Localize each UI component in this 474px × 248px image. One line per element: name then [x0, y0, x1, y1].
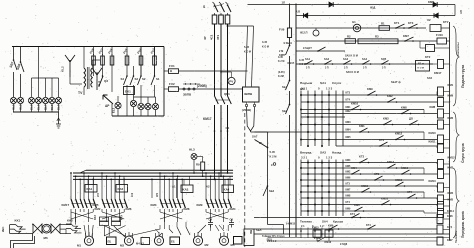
svg-text:KT4: KT4	[366, 224, 371, 227]
svg-text:KM8: KM8	[401, 106, 407, 110]
svg-text:КМ4: КМ4	[346, 129, 352, 132]
relay box KA4	[222, 185, 234, 193]
svg-text:Подъем груза: Подъем груза	[461, 65, 465, 88]
svg-text:1Л: 1Л	[282, 1, 286, 5]
svg-text:КМ3: КМ3	[346, 121, 352, 124]
contact KT3	[408, 27, 410, 29]
svg-text:KM9: KM9	[197, 203, 203, 207]
lamp HL1	[10, 97, 16, 103]
diode V4	[434, 13, 438, 18]
svg-text:KM16: KM16	[401, 166, 409, 170]
relay coil KT1	[430, 25, 441, 32]
svg-text:Ф5Д: Ф5Д	[370, 7, 376, 10]
wire - merge to control drop	[247, 107, 251, 132]
contact KM5	[354, 210, 356, 212]
svg-text:KM6: KM6	[447, 214, 453, 218]
wire - rung	[301, 116, 345, 118]
relay coil KM13	[438, 183, 444, 192]
svg-text:KM13: KM13	[429, 179, 437, 183]
relay box KA1	[85, 185, 97, 193]
svg-text:КМ2: КМ2	[346, 171, 351, 174]
lamp EL2	[115, 102, 121, 108]
wire - jog	[423, 211, 425, 213]
svg-text:K O M: K O M	[262, 46, 269, 49]
svg-text:KM2: KM2	[448, 116, 454, 120]
relay coil KM16	[325, 230, 333, 237]
svg-text:EK1: EK1	[125, 90, 131, 94]
relay coil KM3	[438, 170, 444, 179]
contact KM8	[401, 113, 403, 115]
svg-text:KM3: KM3	[383, 117, 389, 121]
wire - fuse panel verticals	[93, 47, 95, 56]
contact KM4	[351, 173, 353, 175]
arrester symbol	[56, 124, 61, 128]
contactor KM2 contacts	[83, 180, 85, 199]
svg-text:Вперед: Вперед	[300, 151, 311, 155]
brace - hoist group	[453, 26, 459, 106]
wire - motor feeds	[86, 232, 93, 238]
wire - left panel bottom bus	[13, 111, 59, 113]
svg-text:9 SЦ1Т: 9 SЦ1Т	[303, 46, 312, 50]
svg-text:2 1: 2 1	[301, 224, 305, 228]
svg-text:Назад: Назад	[332, 151, 341, 155]
relay coil KT4	[437, 225, 443, 234]
contact KM15	[361, 191, 363, 193]
device 3BПB box	[243, 87, 260, 102]
wire	[179, 88, 243, 90]
wire - rung	[301, 167, 424, 169]
svg-text:KM12: KM12	[448, 156, 456, 160]
svg-text:riЛ: riЛ	[459, 10, 463, 14]
svg-text:KM14: KM14	[447, 209, 454, 213]
svg-text:KM6: KM6	[126, 207, 132, 211]
svg-text:KM10: KM10	[429, 131, 437, 135]
relay coil KM5	[438, 202, 444, 211]
contact KT4b	[351, 217, 353, 219]
svg-text:KT4: KT4	[350, 212, 355, 216]
svg-text:KM1: KM1	[448, 83, 454, 87]
cam table dots	[300, 94, 302, 96]
contact KM16	[401, 173, 403, 175]
wire	[31, 78, 33, 97]
svg-text:SБ2: SБ2	[269, 189, 275, 193]
relay coil KM7b	[437, 237, 443, 245]
wire - motor feed verticals A1	[84, 225, 93, 236]
svg-text:1 2 3: 1 2 3	[326, 87, 333, 91]
svg-text:KM10: KM10	[351, 102, 359, 106]
svg-text:Ф12.П: Ф12.П	[300, 32, 308, 35]
svg-text:5.45: 5.45	[244, 45, 250, 49]
svg-text:КЛ1: КЛ1	[300, 88, 305, 91]
wire - sub bus for lamp group	[32, 77, 59, 79]
svg-text:КМ8: КМ8	[346, 195, 351, 198]
svg-text:KM8: KM8	[184, 207, 190, 211]
contactor KM5 contacts	[101, 180, 103, 199]
svg-text:Подъем: Подъем	[300, 81, 313, 85]
wire - secondary leads	[91, 60, 93, 68]
fuse FU on phase C	[225, 15, 230, 24]
terminals (200B)	[183, 88, 185, 90]
contact KM1	[359, 131, 361, 133]
wire	[38, 78, 40, 97]
contact KM10	[351, 109, 353, 111]
svg-text:KMП: KMП	[279, 53, 285, 57]
svg-text:3.45: 3.45	[299, 58, 305, 62]
svg-text:4С2: 4С2	[131, 192, 134, 197]
svg-text:KM11: KM11	[429, 140, 437, 144]
contact SB10	[317, 50, 319, 52]
svg-text:KM15: KM15	[361, 184, 369, 188]
svg-text:КМ9: КМ9	[346, 208, 351, 211]
wire - rung	[301, 204, 437, 206]
wire - junction dots on drops	[214, 130, 216, 132]
svg-text:KM17: KM17	[203, 117, 212, 121]
svg-text:KTУ: KTУ	[443, 20, 449, 24]
svg-text:U2: U2	[297, 10, 301, 14]
wire - control rail 2	[295, 4, 297, 238]
cam controller SA1 columns	[300, 91, 302, 147]
svg-text:HL1: HL1	[12, 104, 16, 110]
wire - rung	[301, 94, 437, 96]
svg-text:(200B): (200B)	[197, 84, 207, 88]
svg-text:9 KM15: 9 KM15	[286, 222, 296, 226]
wire - 3-phase bus line 3	[73, 178, 233, 180]
contactor KM3 contacts	[159, 180, 161, 199]
svg-text:4T1: 4T1	[216, 35, 220, 40]
wire - drop to arrester	[58, 112, 60, 124]
fuse FU6	[111, 54, 113, 67]
contact KM14	[387, 167, 389, 169]
resistor R2	[345, 39, 356, 44]
arrester FV1 arrows	[65, 55, 75, 77]
svg-text:QF1: QF1	[224, 92, 230, 96]
svg-text:4C1: 4C1	[210, 34, 214, 40]
pushbutton SB4 on rail	[289, 104, 291, 106]
svg-text:4P: 4P	[203, 36, 207, 40]
wire - control drop to SB3	[251, 131, 268, 133]
thermal relay KK3 stack	[100, 217, 109, 221]
wire	[126, 85, 128, 116]
svg-text:SБ5: SБ5	[256, 228, 262, 232]
disconnect switch S - 3 pole	[213, 2, 215, 4]
diode V3	[304, 13, 308, 18]
svg-text:KM12: KM12	[395, 132, 403, 136]
lamp EL3	[138, 103, 144, 109]
brace - travel group	[453, 168, 459, 238]
svg-text:FU9: FU9	[279, 28, 285, 32]
wire - lamp return bus	[112, 115, 164, 117]
svg-text:Спуск груза: Спуск груза	[461, 143, 465, 163]
svg-text:KM9: KM9	[367, 87, 373, 91]
motor M1	[84, 236, 93, 245]
relay coil KM15	[313, 230, 321, 237]
fuse FU10	[437, 38, 447, 44]
lamp EL5	[152, 103, 158, 109]
wire - crossover to common	[102, 212, 124, 219]
cam controller SA4 columns	[300, 228, 302, 239]
box terminal cabinet	[244, 229, 254, 246]
svg-text:KM14: KM14	[387, 160, 395, 164]
wire - KM16 coil stub	[328, 237, 330, 241]
contact KT4	[407, 197, 409, 199]
relay coil KM11	[438, 144, 444, 153]
wire - rung y217.5	[254, 217, 437, 219]
wire - jog	[423, 192, 425, 198]
svg-text:SA4: SA4	[322, 220, 328, 224]
relay coil KM2	[438, 120, 444, 129]
emergency switch AB box	[416, 61, 430, 72]
cam table 2 dots	[307, 162, 309, 164]
svg-text:KM16: KM16	[325, 241, 332, 244]
svg-text:S2: S2	[142, 77, 146, 81]
wire - top rung 1	[248, 4, 456, 6]
svg-text:SA7: SA7	[252, 135, 258, 139]
svg-text:KA4: KA4	[224, 188, 230, 192]
relay coil KM8	[438, 109, 444, 118]
contact ДО	[409, 124, 411, 126]
svg-text:R2: R2	[347, 35, 351, 39]
wire - assembly to motor links	[104, 226, 126, 237]
limit switch SA2	[324, 63, 326, 65]
contact KT2	[379, 145, 381, 147]
svg-text:KM17: KM17	[434, 71, 442, 75]
relay coil KM9	[438, 98, 444, 107]
wire - motor feed verticals A2	[105, 226, 125, 237]
svg-text:SA5 K O M: SA5 K O M	[346, 71, 359, 74]
svg-text:5.45: 5.45	[270, 150, 276, 154]
transformer TV primary winding	[84, 68, 86, 87]
relay coil KM10	[438, 135, 444, 144]
svg-text:КМ4: КМ4	[346, 159, 351, 162]
svg-text:KM1: KM1	[359, 124, 365, 128]
switch S2	[140, 75, 142, 77]
svg-text:EL9: EL9	[37, 104, 41, 110]
wire - phase drops into bus	[214, 173, 216, 180]
svg-text:K 2 M: K 2 M	[270, 155, 277, 159]
svg-text:4Р2: 4Р2	[156, 192, 159, 197]
resistor R1	[379, 26, 390, 31]
svg-text:S1: S1	[156, 77, 160, 81]
bell HA1	[313, 30, 319, 36]
svg-text:3 П: 3 П	[325, 68, 329, 70]
brace - lower group	[453, 112, 459, 162]
wire - rung	[301, 173, 437, 175]
wire - 3-phase bus line 0	[86, 169, 233, 171]
wire - aux drop from bus to brake	[151, 179, 153, 198]
pushbutton SB8b	[317, 240, 319, 242]
contact KM9b	[329, 228, 331, 230]
transformer TV core	[86, 67, 88, 89]
svg-text:U2: U2	[427, 18, 431, 22]
motor M3	[124, 236, 133, 245]
relay coil KM14	[438, 209, 444, 218]
wire - rung	[336, 145, 437, 147]
aux box M4 brake	[141, 238, 150, 245]
relay coil KM17	[438, 60, 444, 69]
relay coil KM6	[437, 215, 443, 224]
motor M4	[154, 236, 163, 245]
svg-text:KM5: KM5	[448, 198, 454, 202]
svg-text:M6: M6	[44, 236, 48, 240]
contact KT2	[359, 162, 361, 164]
transformer TV secondary winding	[91, 68, 93, 87]
contact KM16	[381, 204, 383, 206]
contact KM9	[367, 94, 369, 96]
limit switch SA4	[362, 63, 364, 65]
switch S3	[133, 75, 135, 77]
svg-text:КМ7: КМ7	[346, 189, 351, 192]
fuse FU on phase B	[219, 15, 224, 24]
wire - rung	[301, 197, 437, 199]
contactor KM9 contacts	[205, 180, 207, 199]
svg-text:KT1: KT1	[394, 21, 400, 25]
wire - right return rail	[449, 22, 451, 241]
contactor KM6 contacts	[114, 180, 116, 199]
svg-text:3 2 1: 3 2 1	[301, 156, 308, 160]
wire - left panel top bus	[12, 46, 164, 48]
fuse FU1	[164, 70, 169, 72]
relay box KA2	[116, 185, 128, 193]
motor M6 coupling right	[51, 224, 60, 233]
switch Q3	[99, 76, 103, 86]
svg-text:KM3: KM3	[151, 203, 157, 207]
wire - rung	[301, 139, 437, 141]
relay coil KM12	[438, 160, 444, 169]
svg-text:HL2: HL2	[19, 104, 23, 110]
svg-text:KM4: KM4	[351, 166, 357, 170]
svg-text:A1: A1	[172, 185, 176, 189]
wire - rung	[301, 101, 437, 103]
aux contact pair near EB	[177, 227, 190, 235]
svg-text:SA1: SA1	[305, 57, 311, 61]
svg-text:КМ2: КМ2	[346, 110, 352, 113]
svg-text:KL2: KL2	[61, 66, 65, 72]
wire - crossover to common	[160, 212, 182, 219]
svg-text:Передвиж. крана: Передвиж. крана	[461, 211, 465, 238]
relay coil KT2	[426, 45, 435, 52]
svg-text:9 SБ11: 9 SБ11	[284, 41, 293, 45]
svg-text:M2: M2	[205, 243, 209, 247]
svg-text:Сигналы: Сигналы	[456, 42, 460, 56]
wire - rung	[301, 113, 437, 115]
svg-text:Тойкам УРч Струл: Тойкам УРч Струл	[262, 235, 285, 238]
wire - crossover to common	[206, 212, 228, 219]
wire	[69, 77, 71, 84]
motor M2	[193, 236, 202, 245]
wire - rung y51 short	[296, 50, 345, 52]
bell G1	[353, 24, 361, 32]
wire - rung	[301, 179, 424, 181]
svg-text:SA2: SA2	[324, 57, 330, 61]
svg-text:FU10: FU10	[436, 33, 443, 37]
contact KT3	[374, 179, 376, 181]
svg-text:S3: S3	[135, 77, 139, 81]
svg-text:KM2: KM2	[95, 207, 101, 211]
svg-text:EБ: EБ	[171, 240, 175, 244]
svg-text:FU1: FU1	[169, 64, 175, 68]
svg-text:AB м: AB м	[418, 62, 424, 66]
contact KM7	[404, 40, 406, 42]
wire - rung y28	[296, 27, 426, 29]
terminal row 2	[183, 83, 200, 85]
diode V2	[433, 2, 437, 7]
switch S4	[126, 75, 128, 77]
svg-text:КТ4: КТ4	[346, 201, 351, 204]
wire - bus taps	[159, 172, 161, 174]
fuse FU2	[164, 88, 169, 90]
motor M6	[42, 224, 51, 233]
lamp EL4	[49, 97, 55, 103]
voltmeter PV	[228, 77, 235, 84]
relay AP arrow	[103, 95, 113, 104]
svg-text:A2: A2	[206, 185, 210, 189]
wire - control rail 1 top	[289, 4, 291, 29]
svg-text:SA5: SA5	[427, 76, 433, 80]
wire - jog	[423, 132, 425, 140]
lamp EL4	[145, 103, 151, 109]
svg-text:SБ1Т ф: SБ1Т ф	[391, 80, 401, 84]
svg-text:SA5 K O M: SA5 K O M	[345, 55, 358, 58]
wire - control feed pair	[246, 26, 248, 87]
wire - rung y229	[254, 228, 437, 230]
contact KM2	[387, 101, 389, 103]
wire - KM15 coil stub	[316, 237, 318, 241]
fuse FU8	[93, 54, 95, 67]
svg-text:KK1: KK1	[15, 219, 21, 223]
wire - rung	[301, 185, 437, 187]
wire - rung	[255, 131, 425, 133]
svg-text:2 1 0 1 2: 2 1 0 1 2	[267, 240, 277, 243]
contactor QF1 contacts	[215, 96, 219, 104]
svg-text:KM3: KM3	[448, 166, 454, 170]
contactor KM4 contacts	[218, 180, 220, 199]
terminal 9г	[273, 163, 276, 166]
svg-text:EL8: EL8	[30, 104, 34, 110]
svg-text:3 П: 3 П	[382, 68, 386, 70]
svg-text:2 M: 2 M	[279, 50, 283, 53]
wire - bus taps	[70, 172, 72, 174]
svg-text:KT3: KT3	[408, 21, 414, 25]
wire - branch to control	[227, 25, 229, 27]
wire - bottom jog	[268, 224, 284, 226]
lamp HL2	[17, 97, 23, 103]
svg-text:KM7: KM7	[447, 238, 453, 242]
wire - bottom rail	[254, 233, 450, 235]
resistor R3	[358, 39, 398, 44]
svg-text:KK3: KK3	[94, 214, 97, 220]
wire - rung	[301, 109, 424, 111]
svg-text:KM4: KM4	[230, 207, 236, 211]
svg-text:8Г: 8Г	[259, 141, 263, 145]
limit switch SQ5	[381, 63, 383, 65]
svg-text:КМ1: КМ1	[346, 106, 352, 109]
svg-text:ДО: ДО	[409, 117, 413, 121]
svg-text:ЛB: ЛB	[249, 230, 253, 234]
wire - transformer primary leads	[83, 47, 85, 69]
svg-text:PV: PV	[229, 80, 233, 84]
switch SB8	[20, 47, 22, 63]
wire	[430, 63, 438, 65]
wire - top rung 2	[296, 15, 455, 17]
contact KT4c	[367, 228, 369, 230]
svg-text:SA3: SA3	[320, 151, 326, 155]
pushbutton SB1 on rail	[289, 45, 291, 47]
contact SB2 on drop	[267, 185, 269, 187]
svg-text:K 2M: K 2M	[278, 75, 284, 78]
terminals under box	[245, 104, 247, 106]
svg-text:9 SQ8: 9 SQ8	[340, 243, 348, 246]
cam controller SA3 columns	[300, 160, 302, 217]
